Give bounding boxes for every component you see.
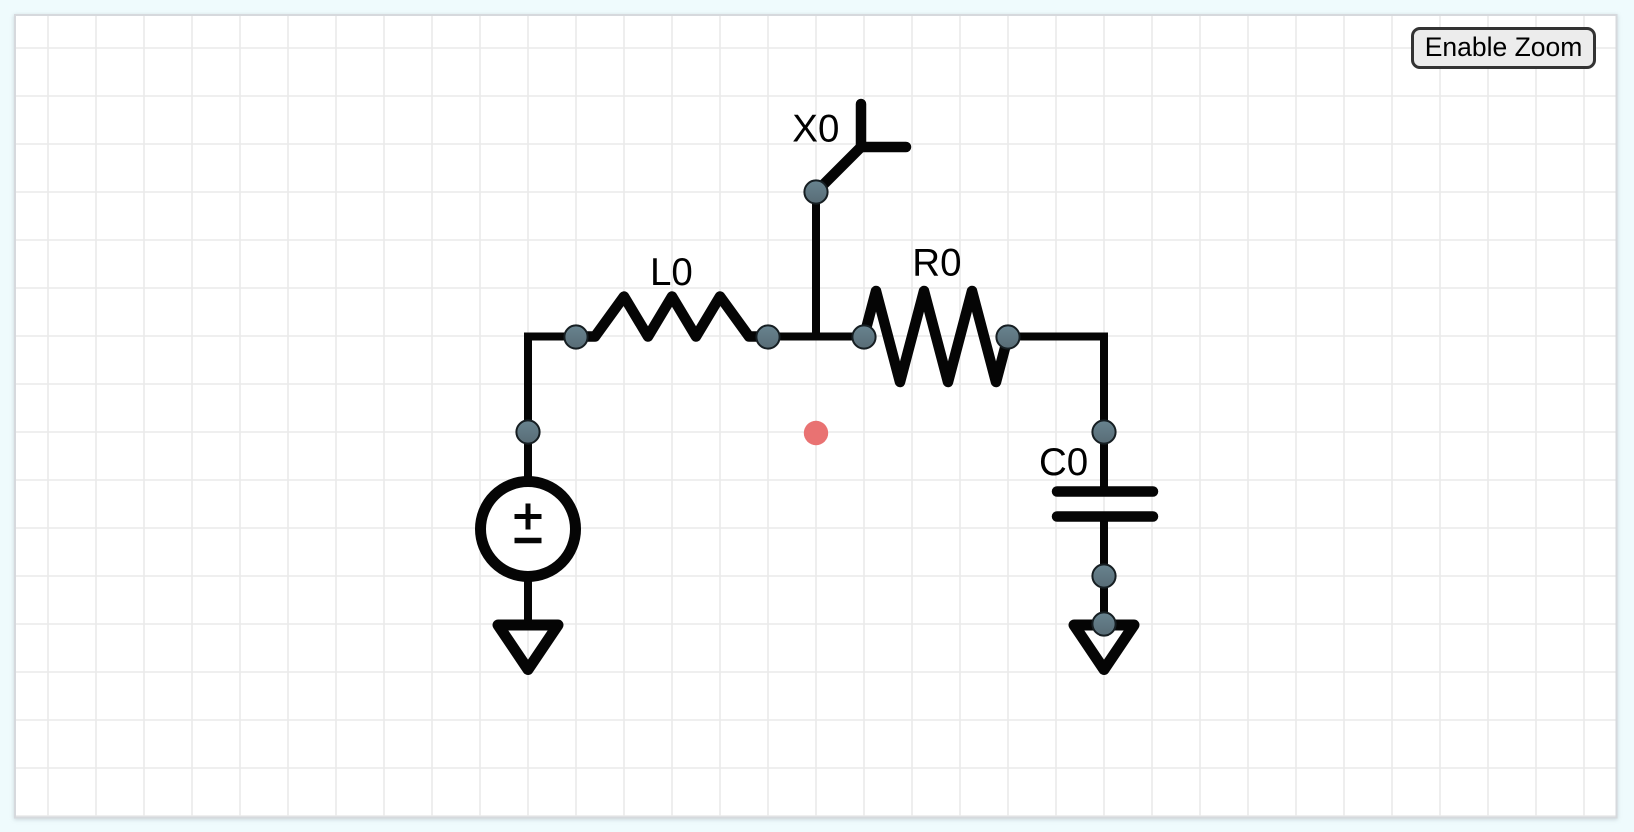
svg-text:L0: L0	[650, 251, 693, 294]
svg-text:R0: R0	[912, 242, 961, 285]
svg-text:X0: X0	[792, 107, 839, 150]
svg-text:C0: C0	[1039, 441, 1088, 484]
